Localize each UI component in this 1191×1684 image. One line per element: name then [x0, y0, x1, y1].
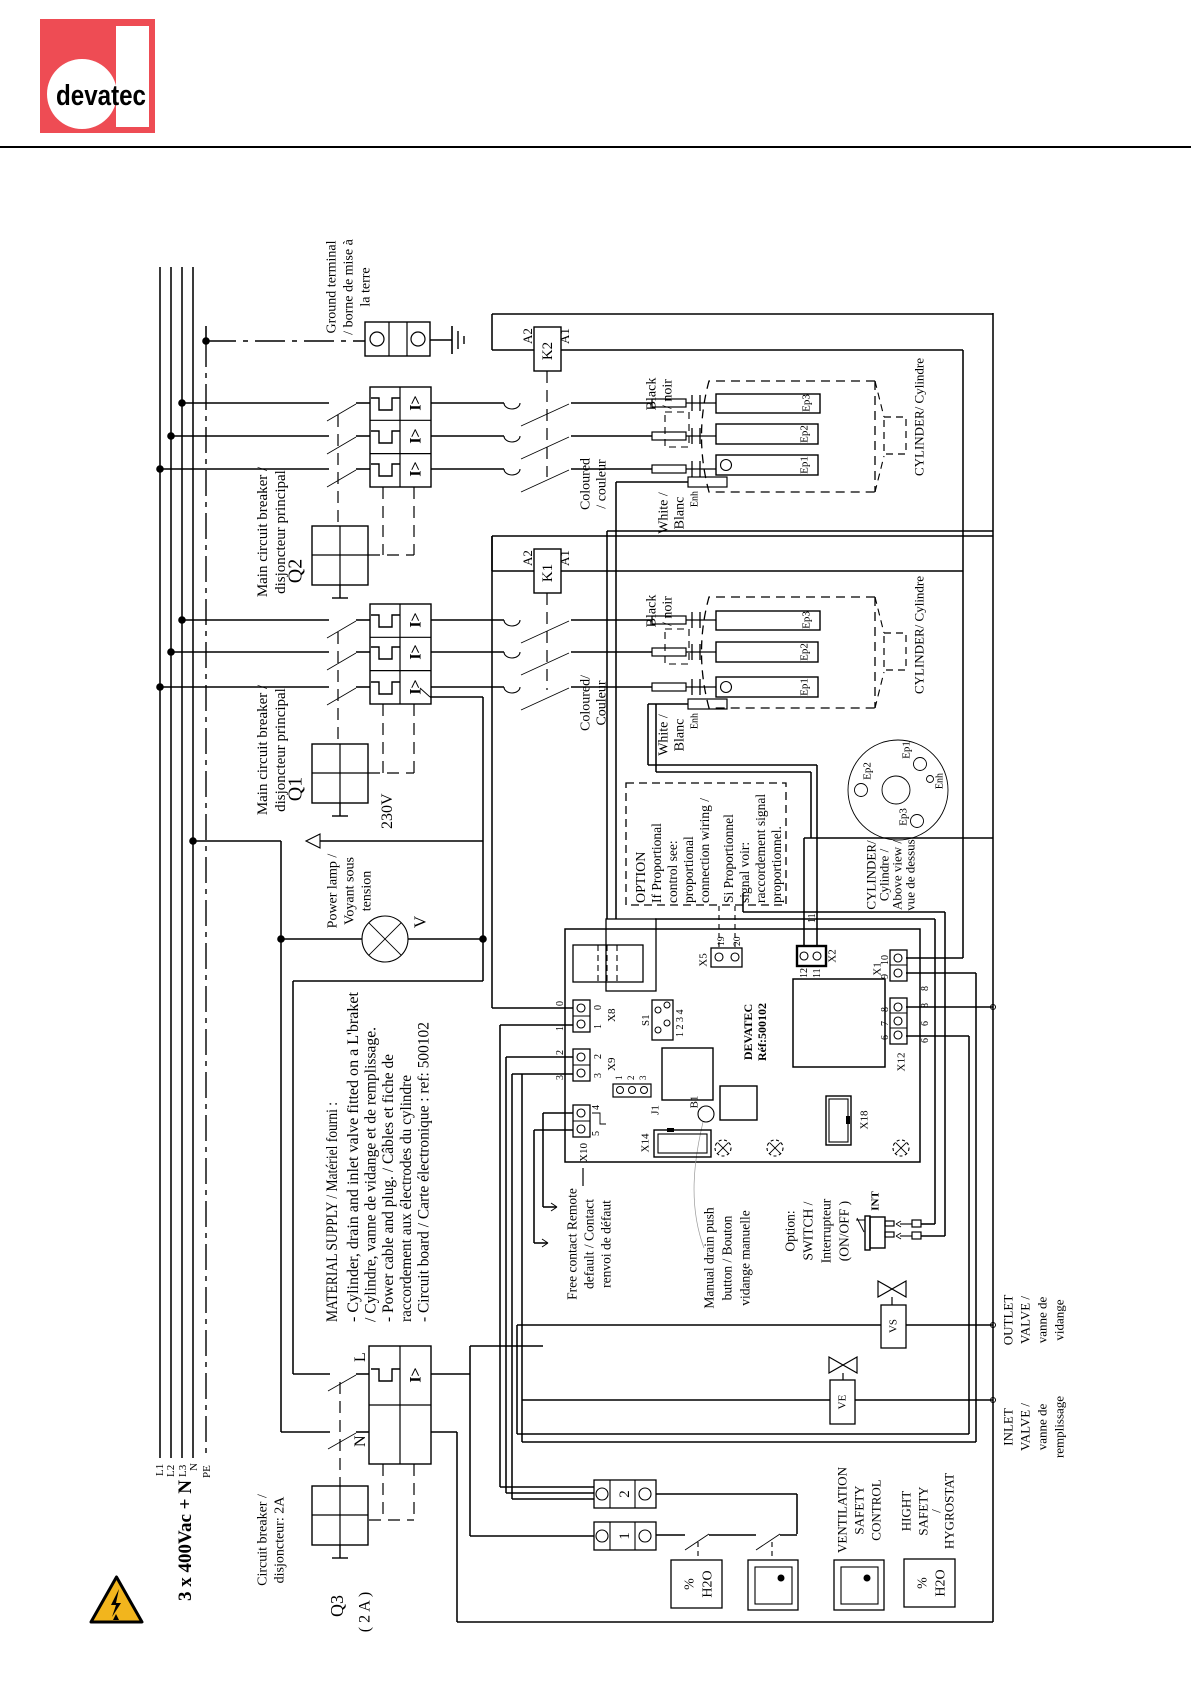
wire N rail [192, 267, 194, 1458]
svg-text:X1: X1 [872, 962, 884, 975]
label I> Q3 [407, 1367, 424, 1382]
wire phase to Q3-L [293, 981, 483, 1374]
wire lamp right [408, 938, 483, 940]
svg-text:11: 11 [812, 968, 823, 978]
wire L3 rail [181, 267, 183, 1458]
svg-text:I>: I> [407, 644, 424, 659]
node L3 tap Q2 row1 [178, 399, 186, 407]
svg-text:- Circuit board / Carte électr: - Circuit board / Carte électronique : r… [416, 1022, 433, 1322]
wire L2 rail [170, 267, 172, 1458]
svg-text:X14: X14 [640, 1133, 652, 1152]
wire K2-A1 to X1-10 [962, 350, 964, 958]
wire N bus right [992, 313, 994, 1622]
electrode Enh (cyl2) [688, 477, 727, 487]
svg-text:A1: A1 [557, 328, 572, 344]
terminal block 2 [594, 1480, 656, 1508]
connector X14 [654, 1128, 711, 1157]
svg-text:X8: X8 [606, 1008, 618, 1022]
svg-text:Black: Black [645, 595, 660, 628]
wire Q2 row2 to K2 contact [431, 435, 504, 437]
svg-text:I>: I> [407, 612, 424, 627]
wire white1 to X2 common [656, 704, 811, 838]
contact K1 row3 [504, 687, 569, 710]
svg-text:tension: tension [360, 871, 375, 911]
label 3 x 400Vac + N [175, 1480, 196, 1601]
svg-text:Ep3: Ep3 [801, 394, 813, 412]
wire bottom N loop [457, 1621, 993, 1623]
svg-text:CYLINDER/ Cylindre: CYLINDER/ Cylindre [911, 576, 926, 694]
wire Q1 row3 to K1 contact [431, 686, 504, 688]
wire Q2 row3 feed [160, 468, 329, 470]
contact K1 row2 [504, 652, 569, 675]
svg-text:HIGHT: HIGHT [898, 1491, 913, 1531]
label ventilation safety [834, 1466, 883, 1553]
connector X9 [573, 1049, 590, 1081]
wire Q2 row2 to breaker [356, 435, 370, 437]
svg-text:( 2 A ): ( 2 A ) [356, 1592, 373, 1632]
svg-text:MATERIAL SUPPLY / Matériel fou: MATERIAL SUPPLY / Matériel fourni : [324, 1102, 341, 1322]
svg-text:proportional: proportional [681, 836, 696, 903]
linkage K1 (dashed) [546, 593, 548, 690]
svg-text:Manual drain push: Manual drain push [701, 1207, 716, 1308]
svg-text:disjoncteur principal: disjoncteur principal [273, 470, 289, 594]
wire INT b [921, 912, 945, 1236]
wire Q2 row1 to K2 contact [431, 402, 504, 404]
svg-text:Ep1: Ep1 [799, 678, 811, 696]
svg-text:Ep3: Ep3 [898, 808, 910, 826]
svg-text:PE: PE [201, 1465, 213, 1478]
label B1 [689, 1096, 701, 1109]
svg-text:- Cylinder, drain and inlet va: - Cylinder, drain and inlet valve fitted… [345, 991, 362, 1322]
svg-text:disjoncteur principal: disjoncteur principal [273, 688, 289, 812]
label main circuit breaker (Q1) [255, 684, 289, 815]
svg-text:0: 0 [593, 1005, 604, 1010]
wire Enh1 to X2-11 [648, 704, 688, 765]
svg-text:connection wiring /: connection wiring / [697, 798, 712, 903]
svg-text:(ON/OFF ): (ON/OFF ) [836, 1201, 851, 1261]
svg-text:7: 7 [880, 1021, 891, 1026]
cylinder 2 outline (dashed) [702, 381, 885, 492]
svg-text:Q3: Q3 [327, 1595, 347, 1617]
breaker Q1 operator box [312, 744, 368, 816]
svg-text:6: 6 [920, 1021, 931, 1026]
svg-text:SWITCH /: SWITCH / [800, 1201, 815, 1260]
connector X2 [797, 946, 826, 966]
wire INT a [921, 1223, 935, 1225]
node lamp N [277, 935, 285, 943]
label ground terminal [325, 238, 374, 334]
wire into block2 a [500, 1486, 594, 1488]
svg-text:6: 6 [880, 1035, 891, 1040]
label Black/noir (cyl2) [645, 378, 676, 411]
label I> Q2-3 [407, 461, 424, 476]
wire K2 row2 to plug [571, 435, 652, 437]
label Q1 [285, 777, 307, 801]
wire K1 row2 to plug [571, 651, 652, 653]
svg-text:8: 8 [880, 1007, 891, 1012]
switch blade Q2 row2 [327, 437, 356, 454]
svg-text:If Proportional: If Proportional [649, 823, 664, 903]
svg-text:Ep2: Ep2 [799, 643, 811, 661]
svg-text:Circuit breaker /: Circuit breaker / [256, 1494, 271, 1586]
svg-text:N: N [352, 1435, 369, 1447]
svg-text:SAFETY: SAFETY [851, 1485, 866, 1535]
wire VE circuit [522, 1398, 996, 1403]
dashed link vent1 [771, 1542, 773, 1560]
svg-text:K1: K1 [540, 564, 556, 582]
wire X12-6 loop [517, 1036, 969, 1434]
svg-text:DEVATEC: DEVATEC [741, 1004, 755, 1060]
label X12 [880, 1007, 908, 1071]
svg-text:X18: X18 [859, 1110, 871, 1129]
svg-text:Main circuit breaker /: Main circuit breaker / [255, 466, 271, 597]
connector X1 [890, 950, 907, 981]
svg-text:V: V [411, 915, 430, 928]
svg-text:L: L [352, 1352, 369, 1362]
plug terminal row2 cyl1 [652, 644, 716, 660]
manual drain leader line [694, 1122, 704, 1248]
svg-text:Coloured/: Coloured/ [579, 675, 594, 731]
svg-text:Free contact Remote: Free contact Remote [564, 1188, 579, 1300]
electrode Ep1 (cyl2) [716, 455, 818, 475]
label Q2 [285, 559, 307, 583]
wire Q1 row2 feed [171, 651, 329, 653]
svg-text:K2: K2 [540, 342, 556, 360]
electrode Ep3 (cyl1) [716, 611, 820, 630]
label hight safety [898, 1473, 956, 1549]
svg-text:/ couleur: / couleur [595, 459, 610, 509]
label White/Blanc (cyl2) [657, 492, 688, 534]
plug terminal row3 cyl2 [652, 461, 716, 477]
label I> Q1-1 [407, 612, 424, 627]
label Q3 [327, 1592, 373, 1632]
label K2 [540, 342, 556, 360]
label X14 [640, 1133, 652, 1152]
label free contact [564, 1168, 613, 1300]
svg-text:Enh: Enh [689, 491, 700, 507]
svg-text:3: 3 [555, 1075, 566, 1080]
svg-text:Ep1: Ep1 [901, 741, 913, 759]
dip switch S1 [652, 1000, 673, 1040]
wire into block2 b [506, 1492, 594, 1494]
svg-text:I>: I> [407, 679, 424, 694]
node N tap lamp [189, 837, 197, 845]
svg-text:230V: 230V [379, 793, 396, 829]
svg-text:0: 0 [555, 1001, 566, 1006]
svg-text:/ Cylindre, vanne de vidange e: / Cylindre, vanne de vidange et de rempl… [363, 1027, 380, 1322]
svg-text:X5: X5 [698, 953, 710, 967]
switch blade Q1 row2 [327, 653, 356, 670]
label PE [201, 1465, 213, 1478]
switch blade Q2 row1 [327, 404, 356, 421]
label V [411, 915, 430, 928]
svg-text:Coloured: Coloured [579, 458, 594, 510]
svg-text:Blanc: Blanc [673, 497, 688, 530]
label X9 pins [555, 1050, 618, 1080]
push button B1 [698, 1106, 714, 1122]
wire K1 row1 to plug [571, 619, 652, 621]
switch vent safety blade [756, 1534, 780, 1550]
wire bracket to INT b [743, 893, 945, 912]
wire Q1 row3 feed [160, 686, 329, 688]
label Coloured/Couleur (K1) [579, 675, 610, 731]
node L3 tap Q1 row1 [178, 616, 186, 624]
plug terminal row1 cyl2 [652, 395, 716, 411]
warning triangle [91, 1577, 142, 1622]
wire X9-3 [512, 1074, 573, 1499]
svg-text:2: 2 [617, 1490, 633, 1498]
svg-text:2: 2 [593, 1054, 604, 1059]
wire X9-2 [506, 1057, 573, 1493]
wire Q1 row3 to breaker [356, 686, 370, 688]
label Enh (cyl1) [689, 713, 700, 729]
wire X8-0 [492, 536, 573, 1008]
svg-text:1: 1 [593, 1024, 604, 1029]
linkage K2 (dashed) [546, 371, 548, 477]
jumper J1 [613, 1084, 651, 1097]
wire N down to Q3-N [281, 939, 330, 1432]
svg-text:devatec: devatec [56, 80, 146, 112]
svg-text:3: 3 [638, 1075, 648, 1080]
electrode Ep1 (cyl1) [716, 677, 818, 697]
svg-text:%: % [683, 1578, 698, 1590]
wire plug to INT a [655, 919, 935, 1224]
svg-text:proportionnel.: proportionnel. [769, 826, 784, 903]
svg-text:VENTILATION: VENTILATION [834, 1466, 849, 1553]
switch blade Q3-L [328, 1375, 356, 1391]
wire PE rail (dash-dot) [205, 326, 207, 1458]
svg-text:VE: VE [837, 1394, 849, 1409]
node L1 tap Q1 row3 [156, 683, 164, 691]
wire L1 rail [159, 267, 161, 1458]
wire Q1 row1 to K1 contact [431, 619, 504, 621]
wire Q1 row1 feed [182, 619, 329, 621]
hygrostat box 1 [671, 1560, 722, 1608]
svg-text:Ep1: Ep1 [799, 456, 811, 474]
svg-text:3 x 400Vac + N: 3 x 400Vac + N [175, 1480, 196, 1601]
svg-text:Enh: Enh [934, 773, 945, 789]
svg-text:vanne de: vanne de [1034, 1403, 1049, 1450]
wire X8-1 [500, 1025, 573, 1487]
label I> Q2-1 [407, 395, 424, 410]
svg-text:Option:: Option: [782, 1210, 797, 1251]
breaker Q1 cells [370, 604, 431, 704]
wire X2-11 to Enh1 [648, 765, 817, 946]
switch blade Q2 row3 [327, 470, 356, 487]
wire K2 row3 to plug [571, 468, 652, 470]
plug terminal row3 cyl1 [652, 679, 716, 695]
dashed trip links Q2 [368, 487, 414, 555]
svg-text:/ noir: / noir [661, 379, 676, 409]
linkage Q1 (dashed) [337, 632, 339, 744]
contact K2 row3 [504, 469, 569, 492]
switch blade Q1 row3 [327, 688, 356, 705]
breaker Q2 cells [370, 387, 431, 487]
label N [188, 1463, 200, 1471]
label Enh (cyl2) [689, 491, 700, 507]
dashed X5 option stubs [719, 906, 735, 948]
label outlet valve [1000, 1295, 1066, 1346]
svg-text:Ep2: Ep2 [862, 762, 874, 780]
svg-text:I>: I> [407, 395, 424, 410]
valve VS [878, 1281, 906, 1348]
wire Enh2 to plug [616, 482, 688, 919]
svg-text:11: 11 [807, 913, 818, 923]
label Black/noir (cyl1) [645, 595, 676, 628]
label L3 [177, 1464, 189, 1477]
svg-text:vue de dessus: vue de dessus [902, 839, 917, 911]
contactor coil K1 [534, 549, 561, 593]
label top view electrodes [862, 741, 946, 826]
cylinder top view [848, 740, 948, 840]
dashed trip links Q1 [368, 704, 414, 773]
label cylinder above view [863, 839, 917, 911]
svg-text:2: 2 [626, 1076, 636, 1081]
relay block 2 [720, 1086, 757, 1120]
label X18 [859, 1110, 871, 1129]
label L1 [154, 1464, 166, 1476]
label option text [634, 794, 784, 903]
node L2 tap Q2 row2 [167, 432, 175, 440]
wire N to lamp [193, 841, 281, 939]
wire lamp left [281, 938, 362, 940]
label A1 (K1) [557, 550, 572, 566]
wire Q2 row3 to breaker [356, 468, 370, 470]
switch blade Q1 row1 [327, 621, 356, 638]
label material supply [324, 991, 433, 1322]
svg-text:I>: I> [407, 428, 424, 443]
svg-text:VALVE /: VALVE / [1017, 1403, 1032, 1451]
cylinder 1 outline (dashed) [702, 597, 885, 708]
breaker Q3 operator box [312, 1486, 368, 1558]
wire VS circuit [517, 1323, 996, 1328]
svg-text:Interrupteur: Interrupteur [818, 1198, 833, 1263]
wire K1 A2 circuit [492, 536, 993, 571]
contact K1 row1 [504, 620, 569, 643]
svg-text:Couleur: Couleur [595, 680, 610, 725]
wire K1 row3 to plug [571, 686, 652, 688]
board lamp 3 [893, 1140, 909, 1156]
wire Q1 row2 to K1 contact [431, 651, 504, 653]
svg-text:/ noir: / noir [661, 596, 676, 626]
plug terminal row1 cyl1 [652, 612, 716, 628]
dashed trip links Q3 [369, 1464, 414, 1520]
wire Q3-L feed [293, 1373, 330, 1375]
wire PE to ground terminal [206, 340, 365, 342]
wire K2 row1 to plug [571, 402, 652, 404]
circuit board outline [565, 929, 920, 1162]
svg-text:J1: J1 [650, 1105, 662, 1115]
label X8 pins [555, 1001, 618, 1031]
svg-text:X10: X10 [578, 1143, 590, 1162]
svg-text:Black: Black [645, 378, 660, 411]
svg-text:Enh: Enh [689, 713, 700, 729]
wire X10-5 remote arrow [534, 1130, 573, 1247]
svg-text:Si Proportionnel: Si Proportionnel [721, 814, 736, 903]
svg-text:3: 3 [593, 1073, 604, 1078]
microcontroller U1 [793, 979, 885, 1067]
ground [452, 326, 464, 354]
terminal block 1 [594, 1522, 656, 1550]
label I> Q1-2 [407, 644, 424, 659]
node lamp phase [479, 935, 487, 943]
label J1 [614, 1075, 662, 1115]
label X2 [799, 949, 839, 978]
label 230V [379, 793, 396, 829]
svg-text:5: 5 [591, 1131, 602, 1136]
label Coloured/couleur (K2) [579, 458, 610, 510]
label White/Blanc (cyl1) [657, 714, 688, 756]
svg-text:OUTLET: OUTLET [1000, 1295, 1015, 1346]
svg-text:raccordement aux électrodes du: raccordement aux électrodes du cylindre [398, 1075, 415, 1322]
hygrostat box 2 [904, 1559, 955, 1607]
label K1 [540, 564, 556, 582]
svg-text:I>: I> [407, 461, 424, 476]
svg-text:12: 12 [799, 968, 810, 978]
dashed proportional box cyl1 [665, 629, 689, 664]
wire Q2 row3 to K2 contact [431, 468, 504, 470]
svg-text:remplissage: remplissage [1051, 1396, 1066, 1458]
power lamp V [362, 916, 408, 962]
wire block1 feed [470, 1535, 594, 1537]
svg-text:1: 1 [555, 1026, 566, 1031]
vent switch box 2 [834, 1560, 884, 1610]
wire chain segment 1 [656, 1534, 685, 1536]
svg-text:1 2 3 4: 1 2 3 4 [675, 1010, 686, 1038]
svg-text:A2: A2 [520, 550, 535, 566]
devatec logo [40, 19, 155, 133]
svg-text:raccordement signal: raccordement signal [753, 794, 768, 903]
plug terminal row2 cyl2 [652, 428, 716, 444]
cylinder 1 neck [884, 633, 906, 670]
board lamp 1 [715, 1140, 731, 1156]
svg-text:default / Contact: default / Contact [581, 1199, 596, 1289]
label I> Q2-2 [407, 428, 424, 443]
svg-text:B1: B1 [689, 1096, 701, 1109]
svg-text:N: N [188, 1463, 200, 1471]
label A2 (K1) [520, 550, 535, 566]
linkage Q3 (dashed) [339, 1382, 341, 1486]
svg-text:8: 8 [920, 986, 931, 991]
label L2 [165, 1465, 177, 1477]
wire chain segment 2 [709, 1534, 756, 1536]
svg-text:la terre: la terre [359, 267, 374, 306]
relay block 1 [662, 1048, 713, 1100]
connector X8 [573, 1000, 590, 1032]
header rule [0, 146, 1191, 148]
svg-text:%: % [916, 1577, 931, 1589]
svg-text:vanne de: vanne de [1034, 1296, 1049, 1343]
breaker Q2 operator box [312, 526, 368, 598]
label A1 (K2) [557, 328, 572, 344]
svg-text:H2O: H2O [701, 1570, 716, 1597]
connector X12 [890, 998, 907, 1044]
svg-text:X12: X12 [896, 1053, 908, 1072]
svg-text:OPTION: OPTION [634, 852, 649, 903]
label X1 [872, 955, 891, 979]
valve VE [829, 1357, 857, 1424]
wire blade to Q3 N [356, 1431, 369, 1433]
label INT [870, 1191, 882, 1211]
wire Q2 row1 feed [182, 402, 329, 404]
transformer/plug [573, 919, 656, 991]
svg-text:Réf:500102: Réf:500102 [755, 1003, 769, 1061]
wire X1-10 [906, 957, 963, 959]
label inlet valve [1000, 1396, 1066, 1458]
svg-text:X2: X2 [827, 949, 839, 962]
electrode Ep2 (cyl1) [716, 642, 818, 662]
connector X18 [826, 1096, 851, 1145]
